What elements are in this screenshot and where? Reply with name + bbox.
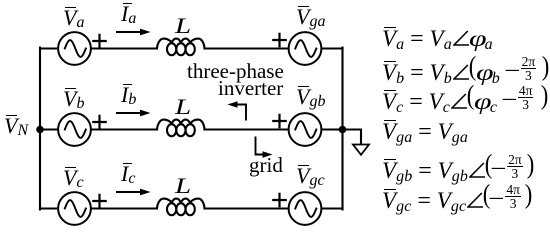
label L phase b	[175, 96, 187, 118]
ac source Vb	[58, 113, 91, 146]
wire: source Va to inductor	[91, 47, 157, 49]
wire: inductor to source Vga	[205, 47, 289, 49]
wire: stub phase c to bus	[40, 207, 58, 209]
label Vgb	[296, 86, 325, 108]
current arrow Ib	[117, 110, 151, 117]
plus sign of source Vga	[273, 34, 285, 46]
label VN node	[4, 115, 28, 137]
ac source Vgb	[289, 113, 322, 146]
inverter pointer arrow	[228, 101, 247, 119]
ac source Vc	[58, 192, 91, 225]
ac source Va	[58, 32, 91, 65]
text grid	[249, 155, 283, 176]
wire: stub phase a to bus	[40, 47, 58, 49]
equation line 5: Vgb	[382, 154, 534, 184]
label Vb	[63, 88, 84, 110]
plus sign of source Vb	[93, 116, 105, 128]
label L phase c	[175, 175, 187, 197]
node VN junction dot	[36, 126, 44, 134]
wire: source Vgc to right bus	[322, 207, 343, 209]
wire: left bus	[39, 48, 41, 210]
inductor L phase a	[157, 39, 205, 56]
label Ia	[121, 3, 136, 25]
wire: source Vgb to right bus	[322, 128, 343, 130]
label Va	[63, 7, 84, 29]
wire: source Vga to right bus	[322, 47, 343, 49]
right bus junction dot	[339, 126, 347, 134]
grid pointer arrow	[256, 138, 273, 158]
wire: stub phase b to bus	[40, 128, 58, 130]
label L phase a	[175, 15, 187, 37]
label Vc	[63, 167, 84, 189]
current arrow Ia	[117, 29, 151, 36]
wire: ground stem	[343, 130, 362, 144]
label Ic	[121, 163, 135, 185]
ac source Vgc	[289, 192, 322, 225]
wire: right bus	[341, 48, 343, 210]
label Vgc	[296, 165, 325, 187]
current arrow Ic	[117, 189, 151, 196]
equation line 6: Vgc	[382, 184, 532, 214]
ac source Vga	[289, 32, 322, 65]
text three-phase inverter	[187, 61, 284, 82]
wire: inductor to source Vgb	[205, 128, 289, 130]
equation line 1: Va = Va angle phi_a	[382, 24, 493, 54]
ground symbol	[353, 145, 369, 155]
inductor L phase c	[157, 199, 205, 216]
plus sign of source Vgb	[273, 115, 285, 127]
wire: inductor to source Vgc	[205, 207, 289, 209]
equation line 3: Vc	[382, 85, 549, 115]
plus sign of source Vc	[93, 195, 105, 207]
label Vga	[296, 6, 325, 28]
wire: source Vb to inductor	[91, 128, 157, 130]
equation line 2: Vb	[382, 56, 549, 86]
equation line 4: Vga = Vga	[382, 117, 468, 147]
label Ib	[121, 84, 136, 106]
inductor L phase b	[157, 120, 205, 137]
plus sign of source Va	[93, 35, 105, 47]
plus sign of source Vgc	[273, 194, 285, 206]
wire: source Vc to inductor	[91, 207, 157, 209]
